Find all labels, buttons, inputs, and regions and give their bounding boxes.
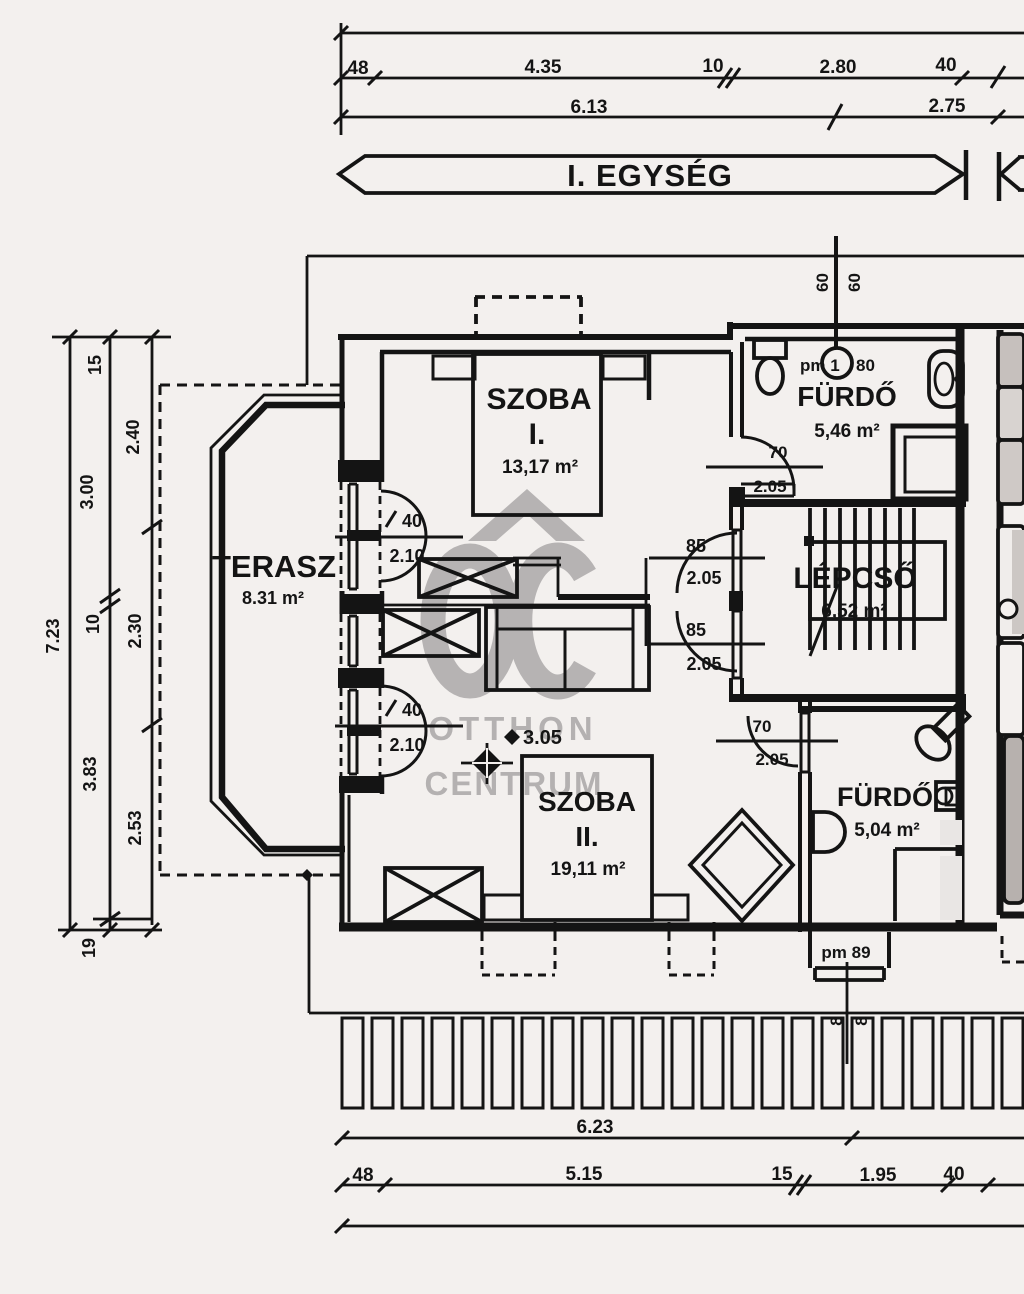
- svg-text:8: 8: [827, 1016, 846, 1025]
- svg-text:13,17 m²: 13,17 m²: [502, 457, 578, 478]
- wall middle segment: [558, 594, 650, 600]
- bottom exterior wall: [339, 923, 997, 932]
- thin floor line: [377, 604, 650, 607]
- wall: step at bathroom: [727, 322, 733, 340]
- wall: top inner szoba I: [380, 350, 731, 355]
- staircase walls: [729, 326, 966, 929]
- svg-text:40: 40: [402, 511, 422, 531]
- watermark Otthon Centrum logo: [468, 489, 585, 541]
- svg-text:5,46 m²: 5,46 m²: [814, 421, 879, 442]
- svg-text:6,52 m²: 6,52 m²: [821, 601, 886, 622]
- svg-text:3.05: 3.05: [523, 727, 562, 749]
- main walls: [338, 322, 1024, 925]
- svg-text:10: 10: [702, 56, 723, 77]
- svg-text:19: 19: [79, 938, 99, 958]
- armchair rotated szoba II: [690, 810, 793, 921]
- node: dashed corner diamond: [301, 869, 313, 881]
- svg-text:pm 89: pm 89: [821, 943, 870, 962]
- terrace parapet wall: [211, 395, 345, 855]
- window/door jambs in left wall: [349, 484, 357, 774]
- shower partition bathroom II: [895, 849, 960, 921]
- bottom dim line 6.23: [335, 1131, 1024, 1145]
- room label SZOBA II: [538, 786, 636, 880]
- svg-text:I. EGYSÉG: I. EGYSÉG: [567, 158, 733, 193]
- level marker +3.05: [504, 729, 520, 745]
- shower mats light gray: [940, 820, 962, 845]
- svg-text:8: 8: [852, 1016, 871, 1025]
- svg-text:2.05: 2.05: [686, 654, 721, 674]
- svg-text:2.75: 2.75: [929, 96, 966, 117]
- vertical dim 60/60 into bathroom: [822, 236, 852, 378]
- top dimension line B: [341, 77, 1024, 80]
- top dimension line A: [334, 23, 1024, 135]
- svg-text:I.: I.: [529, 418, 546, 451]
- svg-text:2.80: 2.80: [820, 57, 857, 78]
- svg-text:2.05: 2.05: [755, 750, 788, 769]
- wardrobe crossed box 2: [383, 610, 479, 656]
- nightstand left: [433, 356, 475, 379]
- svg-text:3.83: 3.83: [80, 756, 100, 791]
- svg-text:70: 70: [769, 443, 788, 462]
- svg-text:6.13: 6.13: [571, 97, 608, 118]
- svg-text:5,04 m²: 5,04 m²: [854, 820, 919, 841]
- corridor door dim connector: [645, 558, 648, 646]
- nightstand szoba II left: [484, 895, 522, 920]
- svg-text:SZOBA: SZOBA: [538, 786, 636, 817]
- door 70/2.05 bathroom II: [716, 713, 838, 772]
- washbasin bathroom II left: [813, 812, 845, 852]
- bathroom II walls: [798, 702, 966, 932]
- svg-text:FÜRDŐ: FÜRDŐ: [797, 381, 897, 412]
- svg-text:2.05: 2.05: [753, 477, 786, 496]
- nightstand szoba II right: [652, 895, 688, 920]
- svg-text:40: 40: [943, 1164, 964, 1185]
- room label FURDO I: [797, 381, 897, 442]
- svg-text:6.23: 6.23: [577, 1117, 614, 1138]
- svg-text:48: 48: [352, 1165, 373, 1186]
- svg-text:2.40: 2.40: [123, 419, 143, 454]
- svg-text:60: 60: [813, 273, 832, 292]
- wall: top outer szoba I: [338, 334, 733, 340]
- svg-text:15: 15: [85, 355, 105, 375]
- node stair start dot: [804, 536, 814, 546]
- dashed window bay 2: [669, 933, 714, 975]
- bottom dim line row 3: [335, 1219, 1024, 1233]
- thin outer outline: [307, 256, 1024, 1013]
- dashed window bay 1: [482, 933, 555, 975]
- small basin bathroom II right: [936, 782, 962, 810]
- sofa: [486, 607, 649, 690]
- svg-text:2.05: 2.05: [686, 568, 721, 588]
- unit 2 furniture gray boxes: [998, 334, 1024, 903]
- svg-text:4.35: 4.35: [525, 57, 562, 78]
- left dimension column: [52, 337, 171, 930]
- dim line through window: [846, 962, 849, 1064]
- unit 2 party wall: [1000, 330, 1024, 915]
- svg-text:60: 60: [845, 273, 864, 292]
- door 85/2.05 upper: [649, 530, 765, 593]
- wall: top outer bathroom/right: [727, 323, 1024, 329]
- wardrobe crossed box 1: [419, 559, 517, 597]
- svg-text:2.30: 2.30: [125, 613, 145, 648]
- room label FURDO II: [837, 781, 933, 841]
- wardrobe crossed box 3: [385, 868, 482, 922]
- svg-text:70: 70: [753, 717, 772, 736]
- svg-text:19,11 m²: 19,11 m²: [551, 859, 626, 880]
- door 70/2.05 bathroom I: [706, 437, 823, 496]
- left rotated labels: [43, 355, 145, 958]
- room label SZOBA I: [487, 383, 592, 478]
- window jamb marks bottom wall: [482, 922, 714, 934]
- svg-text:5.15: 5.15: [566, 1164, 603, 1185]
- top dimension line C: [341, 116, 1024, 119]
- svg-text:15: 15: [771, 1164, 793, 1185]
- wall stub right of szoba I: [647, 352, 652, 400]
- window pm 89 bathroom II: [810, 932, 889, 980]
- svg-text:10: 10: [83, 614, 103, 634]
- wall: top inner unit2: [1000, 337, 1024, 342]
- svg-text:85: 85: [686, 620, 706, 640]
- wall: left inner face segments: [380, 352, 385, 482]
- room label LEPCSO: [793, 561, 916, 622]
- terrace dashed overhang outline: [160, 385, 341, 875]
- svg-text:48: 48: [347, 58, 368, 79]
- bottom dim line row 2: [335, 1175, 1024, 1195]
- banner I. EGYSEG: [339, 150, 1024, 201]
- stair treads: [810, 508, 945, 650]
- wall between corridor and bathroom/stairs: [731, 342, 742, 702]
- svg-text:85: 85: [686, 536, 706, 556]
- svg-text:1.95: 1.95: [860, 1165, 897, 1186]
- svg-text:80: 80: [856, 356, 875, 375]
- nightstand right: [603, 356, 645, 379]
- stair break line: [810, 584, 838, 656]
- dim lines for terrace doors: [335, 511, 463, 726]
- toilet bathroom II rotated: [910, 704, 970, 766]
- svg-text:LÉPCSŐ: LÉPCSŐ: [793, 561, 916, 595]
- door 85/2.05 lower: [649, 611, 765, 678]
- unit 2 dashed window: [1002, 936, 1024, 962]
- wall: dashed faces across openings: [341, 482, 380, 776]
- svg-text:pm 1: pm 1: [800, 356, 840, 375]
- svg-text:40: 40: [935, 55, 956, 76]
- szoba I bed dashed headboard: [475, 297, 582, 339]
- svg-text:3.00: 3.00: [77, 474, 97, 509]
- railing band bars: [342, 1018, 1023, 1108]
- svg-text:SZOBA: SZOBA: [487, 383, 592, 416]
- cabinet step lines: [513, 558, 561, 597]
- svg-text:7.23: 7.23: [43, 618, 63, 653]
- door arcs terrace doors: [381, 491, 426, 776]
- bed szoba I: [473, 354, 601, 515]
- svg-text:FÜRDŐ: FÜRDŐ: [837, 781, 933, 812]
- svg-text:2.10: 2.10: [389, 735, 424, 755]
- top dimension labels row B: [347, 55, 965, 118]
- washbasin bathroom I: [929, 351, 963, 407]
- svg-text:TERASZ: TERASZ: [212, 549, 336, 584]
- wall: solid blocks on left wall: [338, 460, 384, 793]
- svg-text:40: 40: [402, 700, 422, 720]
- bed szoba II: [522, 756, 652, 920]
- svg-text:8.31 m²: 8.31 m²: [242, 588, 304, 608]
- wall: top inner bathroom: [745, 337, 957, 342]
- shower bathroom I: [893, 426, 966, 499]
- svg-text:II.: II.: [575, 821, 598, 852]
- wall: left outer face segments: [340, 339, 345, 482]
- toilet bathroom I: [754, 340, 786, 394]
- svg-text:2.53: 2.53: [125, 810, 145, 845]
